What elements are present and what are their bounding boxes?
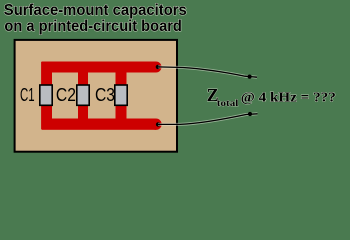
trace top pad round end [151,62,162,73]
wire bottom halo [158,114,258,125]
svg-text:Surface-mount capacitors: Surface-mount capacitors [4,2,187,19]
junction dot on bottom pad [156,122,160,126]
trace top bus [42,62,157,73]
svg-text:on a printed-circuit board: on a printed-circuit board [4,18,182,35]
terminal dot top [248,75,252,79]
capacitor C1 [40,85,52,105]
wire top halo [158,67,257,77]
trace vertical 2 [78,62,88,129]
trace vertical 3 [116,62,127,129]
capacitor C3 [115,85,127,105]
capacitor C2 [77,85,89,105]
svg-text:total: total [217,98,239,108]
trace bottom bus [42,119,157,130]
junction dot on top pad [156,65,160,69]
wire top [158,67,257,77]
svg-text:C2: C2 [56,85,76,105]
svg-text:C3: C3 [95,85,115,105]
svg-text:C1: C1 [20,85,35,105]
terminal dot bottom [248,112,252,116]
wire bottom [158,114,258,125]
PCB board [15,40,177,152]
trace vertical 1 [41,62,52,129]
trace bottom pad round end [150,119,161,130]
svg-text:@ 4 kHz = ???: @ 4 kHz = ??? [241,89,336,104]
